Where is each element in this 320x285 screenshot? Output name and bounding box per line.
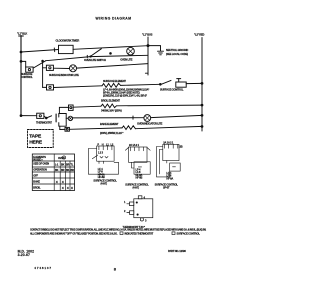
bake element resistor (122, 126, 135, 130)
svg-text:WIRING DIAGRAM: WIRING DIAGRAM (96, 17, 132, 21)
svg-text:OVEN LITE SWITCH: OVEN LITE SWITCH (84, 58, 106, 62)
thermostat blade (46, 117, 48, 119)
svg-text:PART NO. 12496: PART NO. 12496 (168, 249, 186, 253)
wire to neutral ground (148, 46, 161, 51)
wire bake drop (59, 126, 61, 129)
wire row6 left (69, 128, 122, 129)
svg-text:(230/115V), 13.5 @ 230V, 13A*: (230/115V), 13.5 @ 230V, 13A* L-6A, BR-2… (103, 94, 147, 98)
wire row1 left segment (21, 50, 59, 53)
wire row6 right (135, 126, 202, 128)
plug box row3 (47, 85, 54, 90)
svg-text:"L1" BLK: "L1" BLK (17, 32, 27, 36)
svg-text:2B: 2B (180, 145, 183, 149)
wire row1 mid segment (73, 46, 148, 50)
surface control switch blade (160, 84, 162, 86)
svg-text:THERMOSTAT: THERMOSTAT (36, 121, 52, 125)
surface control element box (178, 79, 180, 82)
wire row5 mid (66, 117, 68, 119)
wire row4 right (116, 104, 202, 107)
wire row2a from bus (21, 61, 26, 67)
svg-text:2A 1A 2 1: 2A 1A 2 1 (163, 141, 174, 145)
svg-text:HF-8A: HF-8A (166, 176, 173, 180)
svg-text:(4-HT): (4-HT) (133, 185, 140, 189)
broil element resistor (101, 104, 116, 108)
oven lite switch blade (90, 56, 91, 57)
fig B surface control (125, 147, 150, 174)
thermostat fuse box (37, 113, 44, 118)
svg-text:CONTACT SYMBOLS DO NOT REFLECT: CONTACT SYMBOLS DO NOT REFLECT TRUE CONF… (30, 228, 207, 231)
svg-text:OVEN INDICATOR LITE: OVEN INDICATOR LITE (137, 121, 163, 125)
clock timer box (59, 45, 74, 53)
wire row2a right (90, 55, 148, 56)
svg-text:(4-HT): (4-HT) (101, 181, 108, 185)
svg-text:HERE: HERE (29, 139, 43, 145)
svg-text:4748137: 4748137 (34, 266, 52, 270)
surface indicator lamp (70, 65, 77, 72)
oven lamp across rows (127, 47, 135, 55)
tape here box (28, 130, 54, 148)
wire row2b (53, 67, 69, 69)
plug box broil (69, 105, 74, 110)
svg-text:OFF: OFF (33, 173, 38, 177)
svg-text:BK: BK (66, 168, 70, 172)
svg-text:"L2" RED: "L2" RED (194, 33, 205, 37)
wire row3 left (54, 86, 103, 88)
footer legend thermostat (120, 232, 123, 235)
svg-text:SURFACE ELEMENT: SURFACE ELEMENT (103, 79, 126, 83)
fig C surface control (157, 144, 181, 177)
svg-text:BK: BK (61, 163, 65, 167)
svg-text:OVEN LITE: OVEN LITE (120, 58, 133, 62)
svg-text:TAPE: TAPE (29, 134, 42, 140)
svg-text:BROIL ELEMENT: BROIL ELEMENT (101, 99, 120, 103)
plug box bake (65, 127, 69, 131)
wire bracket vertical (42, 61, 44, 88)
svg-text:BROIL: BROIL (33, 185, 41, 189)
plug box row2b (46, 65, 53, 70)
svg-text:SURFACE CONTROL: SURFACE CONTROL (177, 231, 201, 235)
svg-text:CONTROL: CONTROL (21, 75, 33, 79)
svg-text:INDICATES THERMOSTAT: INDICATES THERMOSTAT (125, 231, 154, 235)
svg-text:BR: BR (66, 163, 70, 167)
svg-text:(SEE LOCAL CODE): (SEE LOCAL CODE) (166, 52, 188, 56)
wire right L2 rail vertical (201, 38, 203, 132)
oven indicator lamp small (68, 116, 72, 120)
svg-text:NEUTRAL GROUND: NEUTRAL GROUND (166, 48, 188, 52)
svg-text:IN USE +: IN USE + (33, 158, 43, 162)
svg-text:OPERATION: OPERATION (33, 167, 47, 171)
surface control fuse box (26, 67, 33, 72)
svg-text:ALL COMPONENTS ARE SHOWN AT "O: ALL COMPONENTS ARE SHOWN AT "OFF" OR "RE… (30, 232, 118, 235)
wire row3 right (186, 82, 202, 84)
svg-text:H: H (102, 142, 104, 146)
svg-text:BK: BK (55, 168, 59, 172)
svg-text:1 2 3: 1 2 3 (98, 151, 104, 155)
wire row2b right (77, 64, 149, 69)
oven indicator lamp (144, 115, 151, 122)
svg-text:3-20-67: 3-20-67 (18, 253, 30, 257)
wire row4 left (73, 106, 101, 107)
switch blade lower left (33, 61, 45, 68)
svg-text:SURFACE INDICATOR LITE: SURFACE INDICATOR LITE (49, 73, 79, 77)
svg-text:(230V), 2585W, 11.2A *: (230V), 2585W, 11.2A * (100, 131, 123, 135)
legend table (32, 154, 74, 191)
wire row5 from bus (21, 115, 37, 117)
footer legend surface control (172, 232, 175, 235)
surface element resistor (102, 83, 121, 87)
svg-text:"L1" BUS: "L1" BUS (142, 33, 153, 37)
wire row2a mid (46, 57, 91, 61)
svg-text:SP-5T: SP-5T (163, 185, 170, 189)
junction dot row1 (110, 53, 112, 55)
junction row1 / L1 bus (147, 45, 149, 47)
wire left L1 bus vertical (20, 36, 22, 117)
svg-text:3400W, 16A* (230V): 3400W, 16A* (230V) (101, 109, 122, 113)
connector tick row1 (53, 48, 55, 52)
wire L1 bus vertical (147, 37, 149, 75)
svg-text:CLOCKWORK TIMER: CLOCKWORK TIMER (56, 39, 80, 43)
svg-text:SURFACE CONTROL: SURFACE CONTROL (160, 87, 184, 91)
thermostat contacts (55, 114, 57, 122)
fig A surface unit switch (88, 146, 118, 174)
wire broil riser (59, 107, 68, 113)
wire row5 right (151, 115, 202, 117)
svg-text:BR: BR (71, 168, 75, 172)
ground symbol (158, 50, 164, 52)
svg-text:HF-8B: HF-8B (136, 176, 143, 180)
svg-text:BAKE ELEMENT: BAKE ELEMENT (100, 122, 119, 126)
wire row3 mid (121, 84, 160, 85)
svg-text:SIZE OF OVEN: SIZE OF OVEN (33, 162, 49, 166)
thermostat detail (127, 196, 153, 221)
svg-text:BR: BR (61, 168, 65, 172)
svg-text:2A 1A 2 1: 2A 1A 2 1 (129, 143, 140, 147)
svg-text:BAKE: BAKE (33, 179, 40, 183)
